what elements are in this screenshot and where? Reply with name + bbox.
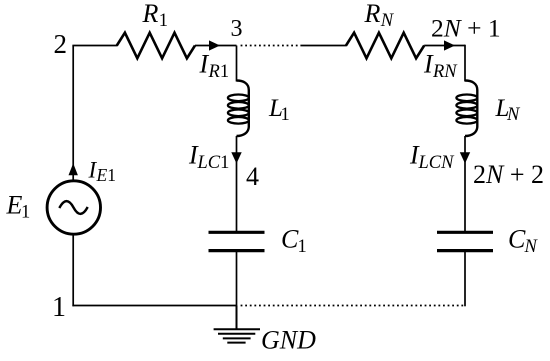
- wire R1 to node 3: [195, 45, 237, 47]
- svg-text:C: C: [508, 225, 526, 254]
- arrow IRN: [444, 40, 455, 50]
- arrow IR1: [209, 40, 220, 50]
- wire top left (node 2 to R1): [72, 45, 117, 47]
- svg-text:N: N: [380, 11, 395, 31]
- wire left vertical (node 2 to source E1 top): [72, 46, 74, 181]
- wire RN to node 2N+1: [424, 45, 465, 47]
- svg-text:1: 1: [281, 105, 290, 125]
- wire source E1 bottom to node 1: [72, 234, 74, 306]
- resistor R1: [117, 33, 195, 59]
- capacitor CN: [437, 232, 493, 250]
- wire dotted bottom rail: [241, 305, 466, 307]
- arrow ILCN: [460, 152, 470, 163]
- wire dotted top (node 3 to RN): [241, 45, 301, 47]
- resistor RN: [346, 33, 424, 59]
- svg-text:4: 4: [246, 162, 259, 191]
- ground: [214, 306, 260, 343]
- wire node 3 down to L1: [236, 46, 238, 82]
- svg-text:1: 1: [52, 292, 66, 323]
- arrow IE1 (current arrow pointing up): [69, 163, 78, 175]
- wire CN to bottom dotted rail: [464, 252, 466, 306]
- svg-text:2N + 2: 2N + 2: [473, 160, 544, 189]
- svg-text:E1: E1: [96, 165, 116, 185]
- svg-text:RN: RN: [432, 62, 458, 82]
- voltage source E1 (AC): [47, 181, 100, 234]
- inductor L1: [228, 81, 249, 137]
- wire dotted-to-RN: [301, 45, 347, 47]
- svg-text:R: R: [142, 0, 159, 28]
- svg-text:3: 3: [231, 16, 243, 42]
- wire LN to CN: [464, 136, 466, 232]
- inductor LN: [456, 81, 477, 137]
- svg-text:R1: R1: [208, 62, 230, 82]
- svg-text:1: 1: [159, 11, 168, 31]
- svg-text:GND: GND: [261, 326, 316, 355]
- wire bottom rail (node 1 to ground junction): [72, 305, 236, 307]
- svg-text:LCN: LCN: [418, 153, 456, 173]
- wire node 2N+1 down to LN: [464, 45, 466, 82]
- svg-text:2N + 1: 2N + 1: [431, 14, 501, 43]
- svg-text:N: N: [524, 237, 539, 257]
- svg-text:LC1: LC1: [197, 153, 230, 173]
- wire L1 to C1: [236, 136, 238, 232]
- capacitor C1: [209, 232, 265, 250]
- svg-text:E: E: [6, 191, 23, 220]
- svg-text:2: 2: [54, 29, 68, 59]
- wire C1 to bottom rail: [236, 252, 238, 306]
- arrow ILC1: [231, 152, 241, 163]
- svg-text:1: 1: [298, 237, 307, 257]
- svg-text:N: N: [506, 105, 521, 125]
- svg-text:C: C: [281, 225, 299, 254]
- svg-text:R: R: [364, 0, 381, 28]
- svg-text:1: 1: [21, 203, 30, 223]
